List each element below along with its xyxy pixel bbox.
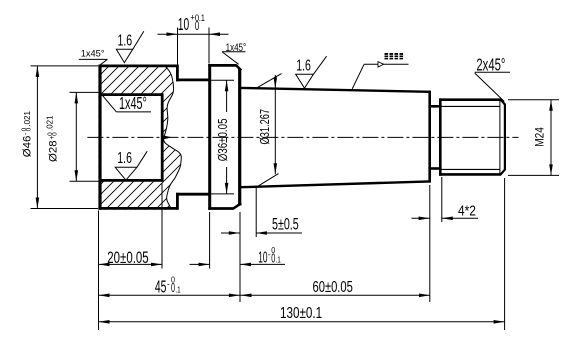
thread chamfer start line xyxy=(499,100,501,175)
svg-text:.1: .1 xyxy=(276,255,281,265)
disc bottom-right chamfer xyxy=(233,203,241,208)
dim 130±0.1 xyxy=(99,321,505,323)
svg-text:Ø28: Ø28 xyxy=(48,140,60,162)
disc right face xyxy=(238,69,241,206)
10-0.1 arrows xyxy=(199,263,210,267)
dim Ø31.267 gauge xyxy=(274,75,276,174)
svg-text:0: 0 xyxy=(26,127,33,131)
leader 2x45 xyxy=(475,71,510,73)
dim 10+0.1 top xyxy=(158,33,229,35)
centerline xyxy=(87,136,518,138)
dim 10-0.1 xyxy=(190,263,210,265)
flange right face lower xyxy=(176,193,179,210)
neck groove bottom xyxy=(428,167,441,170)
dim Ø36 xyxy=(226,80,228,112)
text Ø28 +0.021/0 rotated xyxy=(46,115,60,162)
svg-text:.1: .1 xyxy=(175,285,180,295)
60 arrows xyxy=(241,294,252,298)
dim 5±0.5 xyxy=(221,232,240,234)
flange left face xyxy=(98,65,101,210)
flange bottom edge xyxy=(98,207,177,210)
4*2 arrows xyxy=(419,217,430,221)
10+0.1 arrows (outside) xyxy=(167,32,178,36)
5±0.5 arrows xyxy=(229,231,240,235)
svg-text:10: 10 xyxy=(178,15,189,35)
svg-text:.021: .021 xyxy=(46,115,55,131)
disc left face xyxy=(208,64,211,210)
svg-text:Ø31.267: Ø31.267 xyxy=(259,109,273,145)
svg-text:1.6: 1.6 xyxy=(118,31,133,49)
130 arrows xyxy=(99,320,110,324)
M24 arrows xyxy=(549,100,553,111)
neck groove top xyxy=(428,105,441,108)
svg-text:4*2: 4*2 xyxy=(458,203,476,219)
leader 1x45 bore xyxy=(116,111,151,113)
flange top edge xyxy=(98,65,177,68)
roughness 1.6 bore xyxy=(115,167,137,180)
bore mouth chamfer bottom xyxy=(100,180,102,182)
svg-text:20±0.05: 20±0.05 xyxy=(107,249,148,268)
leader 1x45 left xyxy=(79,58,108,60)
svg-text:Ø36±0.05: Ø36±0.05 xyxy=(217,118,230,161)
svg-text:-: - xyxy=(167,279,170,290)
svg-text:.1: .1 xyxy=(199,13,205,23)
svg-text:1x45°: 1x45° xyxy=(81,48,105,59)
45 arrows xyxy=(99,294,110,298)
Ø31.267 down arrows xyxy=(274,77,278,88)
svg-text:5±0.5: 5±0.5 xyxy=(272,215,299,234)
svg-text:1x45°: 1x45° xyxy=(226,42,247,55)
Ø36 arrows xyxy=(225,80,229,91)
flange right face upper xyxy=(176,65,179,82)
svg-text:-: - xyxy=(268,249,271,260)
thread major top xyxy=(439,98,501,101)
bore end face xyxy=(161,93,164,182)
leader 1x45 disc xyxy=(222,51,246,53)
text M24 rotated xyxy=(534,127,547,147)
20 arrows xyxy=(99,263,110,267)
centerline arrow xyxy=(162,135,173,139)
svg-text:10: 10 xyxy=(258,248,267,267)
text Ø36±0.05 rotated xyxy=(217,118,230,161)
disc bottom edge xyxy=(208,207,233,210)
svg-text:2x45°: 2x45° xyxy=(476,56,505,75)
thread bottom-right chamfer xyxy=(501,169,506,174)
svg-text:130±0.1: 130±0.1 xyxy=(280,303,322,321)
groove floor top xyxy=(176,79,211,82)
groove floor bottom xyxy=(176,193,211,196)
hatching (flange cross-section) xyxy=(0,55,340,215)
svg-text:0: 0 xyxy=(52,132,59,136)
dim 45-0.1 / 60±0.05 xyxy=(99,294,431,296)
text Ø46 0/-0.021 rotated xyxy=(21,110,34,157)
bore bottom edge xyxy=(101,179,162,182)
thread major bottom xyxy=(439,173,501,176)
svg-text:1x45°: 1x45° xyxy=(119,95,147,114)
svg-text:1.6: 1.6 xyxy=(296,57,311,75)
thread top-right chamfer xyxy=(501,100,506,105)
taper top edge xyxy=(241,88,430,92)
thread minor bottom xyxy=(442,168,500,170)
svg-text:Ø46: Ø46 xyxy=(22,136,34,158)
bore top edge xyxy=(101,93,162,96)
svg-text:60±0.05: 60±0.05 xyxy=(313,277,354,296)
svg-text:.021: .021 xyxy=(23,110,32,126)
thread left face xyxy=(439,98,442,175)
disc top edge xyxy=(208,64,236,67)
wavy break line xyxy=(164,66,182,209)
datum flag open arrow xyxy=(378,62,384,67)
svg-text:M24: M24 xyxy=(534,127,547,147)
disc top-right chamfer xyxy=(236,65,242,71)
text Ø31.267 rotated xyxy=(259,109,273,145)
dim Ø28 line xyxy=(75,92,77,181)
dim M24 xyxy=(508,99,559,101)
datum flag tiny text blobs xyxy=(385,53,404,59)
taper bottom edge xyxy=(241,181,430,187)
taper end face xyxy=(428,91,431,183)
Ø46 arrows xyxy=(36,66,40,77)
dim 20±0.05 xyxy=(99,263,163,265)
roughness 1.6 taper xyxy=(296,74,314,88)
thread minor top xyxy=(442,105,500,107)
dim Ø46 line xyxy=(36,66,38,209)
thread end face xyxy=(504,104,506,169)
dim 4*2 xyxy=(412,217,430,219)
bore mouth chamfer top xyxy=(100,92,102,94)
svg-text:1.6: 1.6 xyxy=(117,149,132,167)
Ø28 arrows xyxy=(75,92,79,103)
roughness 1.6 flange top xyxy=(116,49,133,62)
svg-text:45: 45 xyxy=(155,278,167,297)
datum leader xyxy=(352,64,364,89)
